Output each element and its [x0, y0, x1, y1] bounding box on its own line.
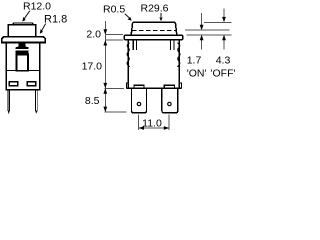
- svg-text:4.3: 4.3: [216, 55, 231, 67]
- svg-text:R29.6: R29.6: [141, 3, 169, 15]
- svg-text:1.7: 1.7: [187, 55, 202, 67]
- svg-text:17.0: 17.0: [82, 60, 103, 72]
- svg-text:R0.5: R0.5: [103, 3, 125, 15]
- svg-text:11.0: 11.0: [142, 117, 162, 129]
- svg-text:8.5: 8.5: [85, 95, 100, 107]
- svg-text:2.0: 2.0: [86, 29, 101, 41]
- svg-text:'ON': 'ON': [187, 67, 207, 79]
- svg-text:R1.8: R1.8: [44, 13, 67, 25]
- svg-text:R12.0: R12.0: [23, 1, 51, 13]
- svg-text:'OFF': 'OFF': [210, 67, 235, 79]
